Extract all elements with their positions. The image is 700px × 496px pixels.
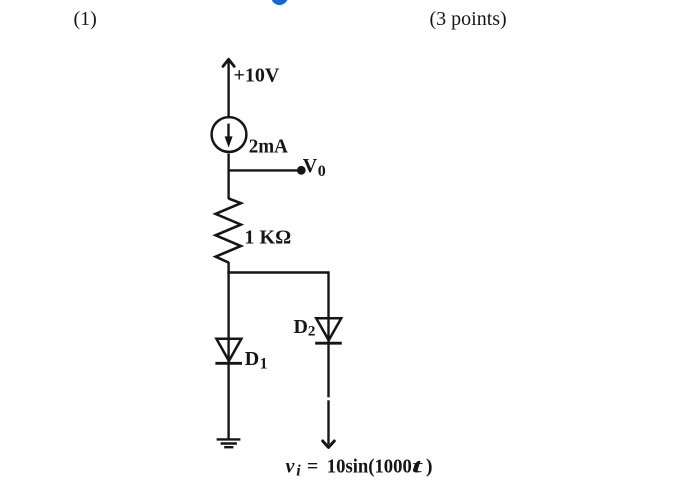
svg-text:D: D xyxy=(245,348,259,370)
svg-text:+10V: +10V xyxy=(234,65,280,87)
svg-text:vi=10sin(1000t): vi=10sin(1000t) xyxy=(286,455,433,479)
svg-text:1: 1 xyxy=(260,356,268,373)
svg-text:D: D xyxy=(294,316,308,338)
svg-text:1 KΩ: 1 KΩ xyxy=(244,227,291,249)
svg-text:0: 0 xyxy=(318,163,326,180)
svg-text:2mA: 2mA xyxy=(249,136,289,158)
svg-text:V: V xyxy=(303,155,318,177)
svg-text:2: 2 xyxy=(308,324,316,340)
